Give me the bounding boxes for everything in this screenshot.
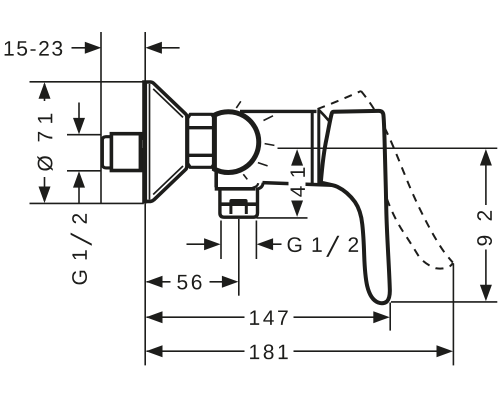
dim line 56 xyxy=(147,281,225,283)
dashed raised lever outer edge xyxy=(361,91,453,263)
shine tick top xyxy=(236,101,241,108)
arrow 181 left xyxy=(146,345,163,357)
wall nipple chamfer block xyxy=(102,137,111,168)
body top line xyxy=(240,110,317,113)
arrow 92 down xyxy=(480,285,492,302)
body bottom line xyxy=(263,183,334,186)
shine tick right xyxy=(265,144,275,146)
dia71 bottom extension line xyxy=(30,202,144,204)
wall nipple body xyxy=(111,134,141,171)
escutcheon cone inner line top xyxy=(153,89,183,118)
arrow G1/2 outlet right xyxy=(257,238,274,250)
dim line G1/2 outlet xyxy=(187,243,282,245)
cartridge sleeve left line xyxy=(311,110,314,185)
escutcheon cone xyxy=(144,82,187,201)
handle lever xyxy=(321,111,390,303)
arrow 181 right xyxy=(437,345,454,357)
escutcheon-face extension line top segment xyxy=(144,32,146,82)
outlet mid bar xyxy=(222,202,257,206)
arrow 147 left xyxy=(146,311,163,323)
dimension text 41 xyxy=(289,167,306,201)
ball joint xyxy=(214,112,258,173)
dim line G1/2 nipple xyxy=(78,103,80,204)
arrow dia71 up xyxy=(39,82,51,99)
arrow 41 up xyxy=(291,149,303,166)
arrow 56 left xyxy=(146,276,163,288)
step line under ball xyxy=(215,187,256,191)
escutcheon-face extension line bottom segment xyxy=(144,203,146,365)
hex nut xyxy=(188,114,215,167)
dimension text 15-23 xyxy=(5,41,63,56)
outlet left extension line xyxy=(220,221,222,260)
dimension text dia71 xyxy=(37,107,53,176)
shine tick bottom xyxy=(243,174,247,179)
step-to-body fillet arc inner xyxy=(253,183,259,187)
arrow 92 up xyxy=(480,149,492,166)
dim181 right extension line xyxy=(452,264,454,366)
dimension text 147 xyxy=(246,308,292,327)
shine tick top-right xyxy=(264,116,274,121)
arrow 15-23 left xyxy=(85,42,102,54)
dim92 bottom extension line xyxy=(391,301,497,303)
nipple top extension line xyxy=(67,134,102,136)
nipple bottom extension line xyxy=(67,170,102,172)
arrow 41 down xyxy=(291,200,303,217)
escutcheon flange inner line xyxy=(149,84,151,200)
dim41 bottom extension line xyxy=(257,217,308,219)
axis line over handle xyxy=(320,147,420,149)
shine tick bottom-right xyxy=(258,163,268,166)
outlet socket xyxy=(220,188,258,218)
escutcheon cone inner line bottom xyxy=(153,166,183,195)
arrow 15-23 right xyxy=(145,42,162,54)
outlet centerline extension xyxy=(238,219,240,296)
dashed raised lever top edge xyxy=(318,91,362,109)
dimension text G1/2 left xyxy=(71,214,92,285)
outlet right extension line xyxy=(255,221,257,260)
arrow G1/2 outlet left xyxy=(204,238,221,250)
wall extension line xyxy=(100,32,102,203)
dimension text 181 xyxy=(246,342,292,361)
ball flat edge xyxy=(213,113,216,171)
wall nipple thread slit xyxy=(142,140,144,148)
hex nut facet line top xyxy=(188,126,215,129)
outlet hat xyxy=(229,199,247,206)
dim line 15-23 xyxy=(72,47,180,49)
dim line 92 xyxy=(485,163,487,287)
wall nipple thread end xyxy=(139,132,147,172)
axis reference line xyxy=(278,147,498,149)
dim line dia71 xyxy=(44,84,46,201)
dimension text 92 xyxy=(474,208,490,248)
arrow nipple thread up xyxy=(73,171,85,188)
dim147 right extension line xyxy=(389,303,391,331)
step under ball left edge xyxy=(214,171,218,188)
escutcheon face xyxy=(144,82,148,204)
dimension text G1/2 right xyxy=(288,236,359,257)
handle pivot arc xyxy=(319,110,331,123)
step-to-body fillet arc outer xyxy=(256,183,263,190)
arrow 147 right xyxy=(373,311,390,323)
dashed raised lever inner edge and tip xyxy=(387,199,453,269)
outlet window wall left xyxy=(229,206,232,214)
cartridge sleeve right line xyxy=(317,110,320,186)
outlet window wall right xyxy=(245,206,248,214)
hex nut facet line bottom xyxy=(188,154,215,157)
arrow nipple thread down xyxy=(73,118,85,134)
dimension text 56 xyxy=(172,272,208,291)
dim line 147 xyxy=(147,316,376,318)
dia71 top extension line xyxy=(30,81,144,83)
dim line 181 xyxy=(147,350,440,352)
arrow 56 right xyxy=(222,276,239,288)
arrow dia71 down xyxy=(39,187,51,204)
